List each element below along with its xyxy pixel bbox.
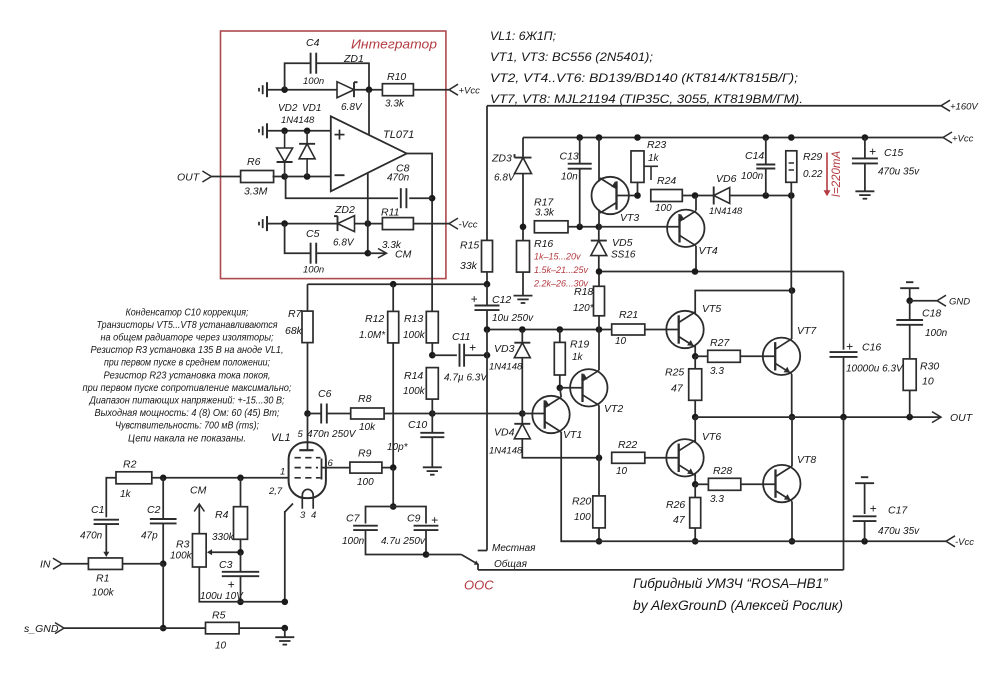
svg-text:+: + xyxy=(469,341,476,355)
wiper R3 xyxy=(207,549,241,555)
svg-text:10: 10 xyxy=(215,641,227,652)
transistor VT2 xyxy=(570,369,623,415)
svg-text:6.8V: 6.8V xyxy=(341,102,363,113)
label Общая xyxy=(494,558,528,570)
svg-text:Интегратор: Интегратор xyxy=(351,37,437,52)
svg-text:VD3: VD3 xyxy=(494,343,515,355)
svg-text:R13: R13 xyxy=(404,313,423,325)
svg-text:100n: 100n xyxy=(925,328,948,339)
wire R14 bottom xyxy=(431,399,433,413)
svg-text:I=220mA: I=220mA xyxy=(831,151,843,198)
svg-text:C13: C13 xyxy=(560,151,579,163)
wire C18 to R30 xyxy=(909,325,911,359)
wire VT4 collector down xyxy=(695,246,697,272)
svg-text:C7: C7 xyxy=(346,513,361,525)
svg-text:470n: 470n xyxy=(80,531,103,542)
wire VD4 to R22 node xyxy=(522,439,602,461)
svg-text:+Vcc: +Vcc xyxy=(952,133,974,144)
capacitor C5 xyxy=(285,224,368,276)
svg-text:Местная: Местная xyxy=(492,543,536,554)
svg-text:+160V: +160V xyxy=(950,102,979,113)
svg-text:3.3M: 3.3M xyxy=(244,186,268,198)
wire -Vcc rail xyxy=(561,536,975,548)
svg-text:+: + xyxy=(869,502,876,516)
capacitor C4 xyxy=(285,37,369,90)
svg-text:C3: C3 xyxy=(219,559,233,571)
capacitor C6 xyxy=(308,388,351,424)
resistor R9 xyxy=(350,448,382,489)
svg-text:TL071: TL071 xyxy=(383,129,414,141)
svg-text:+: + xyxy=(470,292,477,306)
wire VT2 collector down xyxy=(598,405,600,458)
resistor R14 xyxy=(403,368,438,400)
svg-text:R5: R5 xyxy=(212,610,226,622)
wire s_GND to R5 xyxy=(64,627,206,629)
svg-text:+Vcc: +Vcc xyxy=(459,86,481,97)
wire Общая corner up to OUT xyxy=(843,417,845,570)
svg-text:R2: R2 xyxy=(123,459,137,471)
svg-text:1N4148: 1N4148 xyxy=(281,115,315,126)
node IN terminal xyxy=(40,558,62,570)
resistor R10 xyxy=(382,71,413,110)
resistor R18 xyxy=(573,286,605,316)
wire B+ corner to R7 xyxy=(307,284,309,311)
label VD2 VD1 xyxy=(278,103,321,126)
wire R3 bottom xyxy=(199,567,288,605)
wire VT5 collector xyxy=(695,287,795,313)
svg-text:3.3: 3.3 xyxy=(710,366,724,377)
ground under C15 xyxy=(855,163,874,198)
ground at ZD2 line xyxy=(259,216,267,231)
transistor VT3 xyxy=(592,177,640,224)
svg-text:100: 100 xyxy=(655,203,672,214)
svg-text:C1: C1 xyxy=(91,504,104,516)
svg-text:10u 250v: 10u 250v xyxy=(492,313,534,324)
wire C3 bottom xyxy=(237,576,244,605)
svg-text:C10: C10 xyxy=(408,419,427,431)
wire VT1 base xyxy=(522,413,544,415)
diode VD1 xyxy=(299,131,315,177)
wire R5 to ground xyxy=(239,625,288,632)
wire tube grid2 to R9 xyxy=(321,467,350,469)
wire R20 top xyxy=(598,458,600,496)
svg-text:10000u 6.3V: 10000u 6.3V xyxy=(846,364,904,375)
svg-text:на общем радиаторе через изоля: на общем радиаторе через изоляторы; xyxy=(101,332,274,344)
wire R19 top xyxy=(559,330,561,343)
svg-text:ZD1: ZD1 xyxy=(343,53,364,65)
wire R28 to VT8 base xyxy=(741,483,776,485)
wire R18 bottom xyxy=(598,316,600,330)
svg-text:VT2, VT4..VT6: BD139/BD140: VT2, VT4..VT6: BD139/BD140 (КТ814/КТ815В… xyxy=(490,71,798,85)
capacitor C18 xyxy=(896,301,947,339)
wire op-amp output xyxy=(407,154,436,312)
resistor R5 xyxy=(206,610,240,652)
wire VT7 collector up xyxy=(791,291,793,340)
svg-text:SS16: SS16 xyxy=(611,250,636,261)
wire R20 bottom xyxy=(596,528,603,545)
svg-text:OUT: OUT xyxy=(177,172,201,184)
svg-text:10p*: 10p* xyxy=(387,442,409,453)
wire R29 to collectors node xyxy=(790,196,792,291)
wire VT5 emitter xyxy=(692,346,699,360)
wire R2 to tube grid xyxy=(152,475,289,482)
svg-text:R23: R23 xyxy=(647,139,666,151)
resistor R2 xyxy=(116,459,152,501)
svg-text:1k: 1k xyxy=(120,489,132,500)
svg-text:R28: R28 xyxy=(713,465,732,477)
svg-text:VT2: VT2 xyxy=(604,403,623,415)
svg-text:ZD2: ZD2 xyxy=(334,204,355,216)
svg-text:100k: 100k xyxy=(170,551,193,562)
svg-text:100n: 100n xyxy=(342,536,365,547)
svg-text:470u 35v: 470u 35v xyxy=(878,526,920,537)
svg-text:OUT: OUT xyxy=(950,412,974,424)
wire R9 to feedback node xyxy=(382,464,397,471)
ground under C10 xyxy=(423,467,442,474)
svg-text:при первом пуске сопротивление: при первом пуске сопротивление максималь… xyxy=(83,383,292,394)
svg-text:VT1, VT3: BC556 (2N5401);: VT1, VT3: BC556 (2N5401); xyxy=(490,50,653,64)
svg-text:100k: 100k xyxy=(92,588,115,599)
resistor R21 xyxy=(612,309,645,347)
svg-text:470n 250V: 470n 250V xyxy=(307,429,357,440)
wire R26 bottom xyxy=(692,528,699,545)
svg-text:1k: 1k xyxy=(648,153,660,164)
svg-text:6.8V: 6.8V xyxy=(494,173,516,184)
svg-text:3.3k: 3.3k xyxy=(535,208,555,219)
tube anode plate xyxy=(299,449,313,451)
svg-text:R19: R19 xyxy=(570,339,589,351)
wire R18 top xyxy=(598,272,600,287)
svg-text:C4: C4 xyxy=(306,37,320,49)
svg-text:R25: R25 xyxy=(665,367,684,379)
tube pin 2 7 xyxy=(268,486,283,497)
capacitor C10 xyxy=(387,414,444,468)
svg-text:VD1: VD1 xyxy=(302,103,321,114)
resistor R20 xyxy=(572,496,605,528)
resistor R15 xyxy=(460,240,493,273)
wire op-amp V- pin xyxy=(367,173,369,224)
diode VD4 xyxy=(489,414,530,457)
svg-text:10: 10 xyxy=(922,376,934,388)
label title line 2 xyxy=(633,598,843,613)
svg-text:VT7: VT7 xyxy=(797,325,817,337)
diode VD2 xyxy=(277,131,293,177)
svg-text:100: 100 xyxy=(357,477,374,488)
svg-text:R29: R29 xyxy=(803,151,822,163)
capacitor C13 xyxy=(560,138,592,227)
wire VT3 base xyxy=(617,195,638,197)
svg-text:Общая: Общая xyxy=(494,558,528,570)
tube heater xyxy=(302,489,313,508)
capacitor C16 xyxy=(830,340,905,375)
svg-text:10n: 10n xyxy=(561,172,578,183)
label device list xyxy=(490,29,803,106)
capacitor C15 xyxy=(852,138,920,178)
capacitor C1 xyxy=(80,504,119,542)
svg-text:Резистор R23 установка тока по: Резистор R23 установка тока покоя, xyxy=(104,370,271,381)
resistor R3 potentiometer xyxy=(170,534,206,567)
wire C2 col to sgnd xyxy=(160,564,167,632)
transistor VT6 xyxy=(666,431,721,476)
capacitor C7 xyxy=(342,507,393,548)
capacitor C14 xyxy=(741,138,775,196)
wire VT5 emitter to R27 xyxy=(695,355,708,357)
wire R16 top xyxy=(522,227,524,241)
resistor R17 xyxy=(534,197,568,233)
label C6 value xyxy=(298,429,357,440)
svg-text:33k: 33k xyxy=(460,260,478,272)
current arrow I=220mA xyxy=(824,151,844,198)
resistor R26 xyxy=(666,498,701,529)
svg-text:CM: CM xyxy=(190,485,207,497)
svg-text:100n: 100n xyxy=(741,171,764,182)
svg-text:1N4148: 1N4148 xyxy=(489,446,523,457)
wire C16 to OUT rail xyxy=(843,357,845,417)
capacitor C9 xyxy=(381,507,438,548)
svg-text:3.3: 3.3 xyxy=(710,494,724,505)
wire feedback node down xyxy=(390,468,397,510)
wire VT1 collector down xyxy=(561,432,599,541)
resistor R28 xyxy=(708,465,740,505)
svg-text:R8: R8 xyxy=(358,393,372,405)
svg-text:1k–15...20v: 1k–15...20v xyxy=(534,252,581,262)
wire to switch blade xyxy=(426,554,461,556)
svg-text:R10: R10 xyxy=(387,71,406,83)
svg-text:1k: 1k xyxy=(572,352,584,363)
wire R6 to op-amp inverting input xyxy=(273,173,331,180)
diode VD6 xyxy=(709,173,743,217)
capacitor C11 xyxy=(432,331,490,384)
svg-text:VD4: VD4 xyxy=(494,427,515,439)
integrator box frame xyxy=(221,31,446,279)
svg-text:VT7, VT8: MJL21194 (TIP35C,: VT7, VT8: MJL21194 (TIP35C, 3055, КТ819В… xyxy=(490,92,803,106)
resistor R6 xyxy=(241,156,274,198)
wire rail corner to ZD3 xyxy=(522,138,524,158)
svg-text:+: + xyxy=(846,340,853,354)
trimmer tap R23 xyxy=(644,166,658,180)
wire Местная feedback line xyxy=(478,330,487,551)
label notes text block xyxy=(83,307,292,444)
svg-text:R1: R1 xyxy=(96,573,109,585)
wire VT6 emitter xyxy=(692,474,699,488)
svg-text:R18: R18 xyxy=(574,286,593,298)
svg-text:Резистор R3 установка 135 В на: Резистор R3 установка 135 В на аноде VL1… xyxy=(91,345,284,356)
label ООС xyxy=(464,578,494,593)
wire R17 node left xyxy=(520,224,527,231)
svg-text:1.5k–21...25v: 1.5k–21...25v xyxy=(534,265,589,275)
wire R7 to anode node xyxy=(304,343,311,417)
wire VT6 collector up xyxy=(694,417,696,442)
svg-text:100: 100 xyxy=(574,512,591,523)
svg-text:100k: 100k xyxy=(403,330,426,341)
wire R12 top xyxy=(392,284,394,311)
wire R25 bottom xyxy=(692,400,699,420)
wire R22 to VT6 xyxy=(645,457,679,459)
wire OUT to R6 xyxy=(211,176,240,178)
node GND terminal xyxy=(910,295,971,307)
svg-text:C12: C12 xyxy=(492,294,511,306)
wire VT4 collector line xyxy=(596,268,844,275)
node CM input xyxy=(190,485,207,512)
node s_GND terminal xyxy=(24,623,64,635)
svg-text:Чувствительность: 700 мВ (rms): Чувствительность: 700 мВ (rms); xyxy=(115,421,259,432)
node OUT input terminal xyxy=(177,171,211,184)
capacitor C2 xyxy=(141,504,177,542)
label VL1 xyxy=(271,432,291,444)
svg-text:IN: IN xyxy=(40,559,51,571)
svg-text:ООС: ООС xyxy=(464,578,494,593)
capacitor C3 xyxy=(200,552,259,602)
wire bias rail xyxy=(484,326,612,333)
wire + input xyxy=(267,128,331,135)
svg-text:C9: C9 xyxy=(407,513,421,525)
svg-text:R20: R20 xyxy=(572,496,591,508)
svg-text:68k: 68k xyxy=(285,325,303,337)
wire VD6 to C14 R29 xyxy=(730,192,795,199)
svg-text:ZD3: ZD3 xyxy=(491,153,512,165)
svg-text:3.3k: 3.3k xyxy=(385,99,405,110)
svg-text:VT5: VT5 xyxy=(702,303,721,315)
svg-text:10: 10 xyxy=(616,466,628,477)
svg-text:C18: C18 xyxy=(922,308,941,320)
wire VT2 emitter up xyxy=(598,330,600,371)
wire R10 to +Vcc terminal xyxy=(413,84,480,96)
resistor R27 xyxy=(708,337,741,377)
node CM output xyxy=(368,249,412,261)
svg-text:0.22: 0.22 xyxy=(803,169,823,180)
wire VT4 emitter up xyxy=(695,196,697,211)
svg-text:330k: 330k xyxy=(212,532,235,543)
wire C7 bottom xyxy=(366,530,425,554)
capacitor C17 xyxy=(853,477,920,537)
wire VT3 emitter to rail xyxy=(598,138,600,182)
resistor R19 xyxy=(554,339,589,376)
wire R2 left to C1 xyxy=(106,478,116,518)
svg-text:VT3: VT3 xyxy=(620,212,639,224)
svg-text:VL1: VL1 xyxy=(271,432,291,444)
svg-text:100u 10V: 100u 10V xyxy=(200,591,244,602)
wire anode lead xyxy=(307,414,309,451)
svg-text:Цепи накала не показаны.: Цепи накала не показаны. xyxy=(128,433,246,444)
svg-text:Конденсатор С10 коррекция;: Конденсатор С10 коррекция; xyxy=(126,307,249,318)
svg-text:R22: R22 xyxy=(618,439,637,451)
svg-text:1N4148: 1N4148 xyxy=(489,362,523,373)
op-amp U1 TL071 xyxy=(331,116,414,191)
svg-text:C5: C5 xyxy=(306,228,320,240)
transistor VT5 xyxy=(666,303,721,348)
wire R17 to VT3 collector node xyxy=(568,224,602,231)
label Интегратор xyxy=(351,37,437,52)
svg-text:CM: CM xyxy=(395,249,412,261)
svg-text:470u 35v: 470u 35v xyxy=(878,167,920,178)
wire R1 to C2 column xyxy=(123,563,164,565)
wire IN to R1 xyxy=(62,563,88,565)
svg-text:47: 47 xyxy=(673,514,686,526)
wire R14 node to VD column xyxy=(432,410,525,417)
svg-text:R30: R30 xyxy=(920,361,939,373)
wire R8 to R14 node xyxy=(384,410,436,417)
wire VT4 base xyxy=(599,226,680,228)
resistor R13 xyxy=(403,311,438,343)
svg-text:R27: R27 xyxy=(710,337,730,349)
wire gnd to ZD2 xyxy=(267,220,338,227)
wire top gnd to ZD1 xyxy=(267,86,337,93)
resistor R24 xyxy=(651,175,683,214)
wire corner down to C16 xyxy=(843,272,845,350)
zener ZD2 xyxy=(333,204,355,249)
wire feedback to C8 xyxy=(285,177,399,199)
tube pin 5 marker xyxy=(0,0,1,1)
wire R4 bottom node xyxy=(237,539,244,555)
diode VD5 xyxy=(591,227,636,272)
svg-text:10: 10 xyxy=(615,336,627,347)
tube pin 6 xyxy=(328,458,334,469)
wire OUT rail xyxy=(695,412,974,424)
svg-text:47p: 47p xyxy=(141,531,158,542)
svg-text:Выходная мощность: 4 (8) Ом: 6: Выходная мощность: 4 (8) Ом: 60 (45) Вт; xyxy=(95,408,280,419)
tube grid 3 xyxy=(295,457,321,459)
wire op-amp V+ pin xyxy=(368,90,370,136)
tube pin 3 xyxy=(300,510,306,521)
wire VT6 emitter to R28 xyxy=(695,483,708,485)
svg-text:1: 1 xyxy=(280,467,285,478)
wire R11 to -Vcc terminal xyxy=(413,218,477,230)
svg-text:by AlexGrounD (Алексей Росл: by AlexGrounD (Алексей Рослик) xyxy=(633,598,843,613)
wire C2 column xyxy=(160,478,167,567)
wire cathode lead xyxy=(285,504,293,602)
resistor R11 xyxy=(381,207,413,252)
wire VT1 emitter to node xyxy=(560,388,561,397)
ground main xyxy=(275,628,294,645)
wire ZD2 to R11 xyxy=(355,220,383,227)
wire R30 to OUT rail xyxy=(909,390,911,417)
svg-text:R9: R9 xyxy=(358,448,372,460)
label Местная xyxy=(492,543,536,554)
tube grid 1 xyxy=(295,477,321,479)
wire R23 bottom xyxy=(634,182,641,198)
svg-text:4.7µ 6.3V: 4.7µ 6.3V xyxy=(444,373,488,384)
diode VD3 xyxy=(489,330,530,414)
wire R21 to VT5 xyxy=(645,329,679,331)
svg-text:C15: C15 xyxy=(884,147,903,159)
svg-text:-Vcc: -Vcc xyxy=(955,537,974,548)
resistor R30 xyxy=(903,359,939,391)
svg-text:2,7: 2,7 xyxy=(268,486,283,497)
resistor R25 xyxy=(665,367,702,401)
zener ZD1 xyxy=(337,53,364,113)
wire R19 bottom node xyxy=(557,375,564,391)
svg-text:R3: R3 xyxy=(176,539,190,551)
wire C9 bottom xyxy=(423,530,430,558)
svg-text:C11: C11 xyxy=(452,331,470,343)
tube VL1 envelope xyxy=(289,442,326,498)
svg-text:Транзисторы VT5...VT8 устанавл: Транзисторы VT5...VT8 устанавливаются xyxy=(97,320,279,331)
svg-text:R6: R6 xyxy=(247,156,261,168)
svg-text:R15: R15 xyxy=(460,240,479,252)
wire +Vcc rail xyxy=(523,132,974,144)
svg-text:47: 47 xyxy=(671,383,684,395)
svg-text:+: + xyxy=(869,145,876,159)
resistor R8 xyxy=(351,393,384,433)
node GND symbol top xyxy=(900,282,919,304)
tube grid 2 xyxy=(295,459,322,480)
svg-text:3: 3 xyxy=(300,510,306,521)
wire VT2 base xyxy=(560,387,583,389)
svg-text:470n: 470n xyxy=(387,173,410,184)
svg-text:VT1: VT1 xyxy=(563,429,582,441)
svg-text:6.8V: 6.8V xyxy=(333,238,355,249)
wire Общая feedback line xyxy=(478,564,844,570)
